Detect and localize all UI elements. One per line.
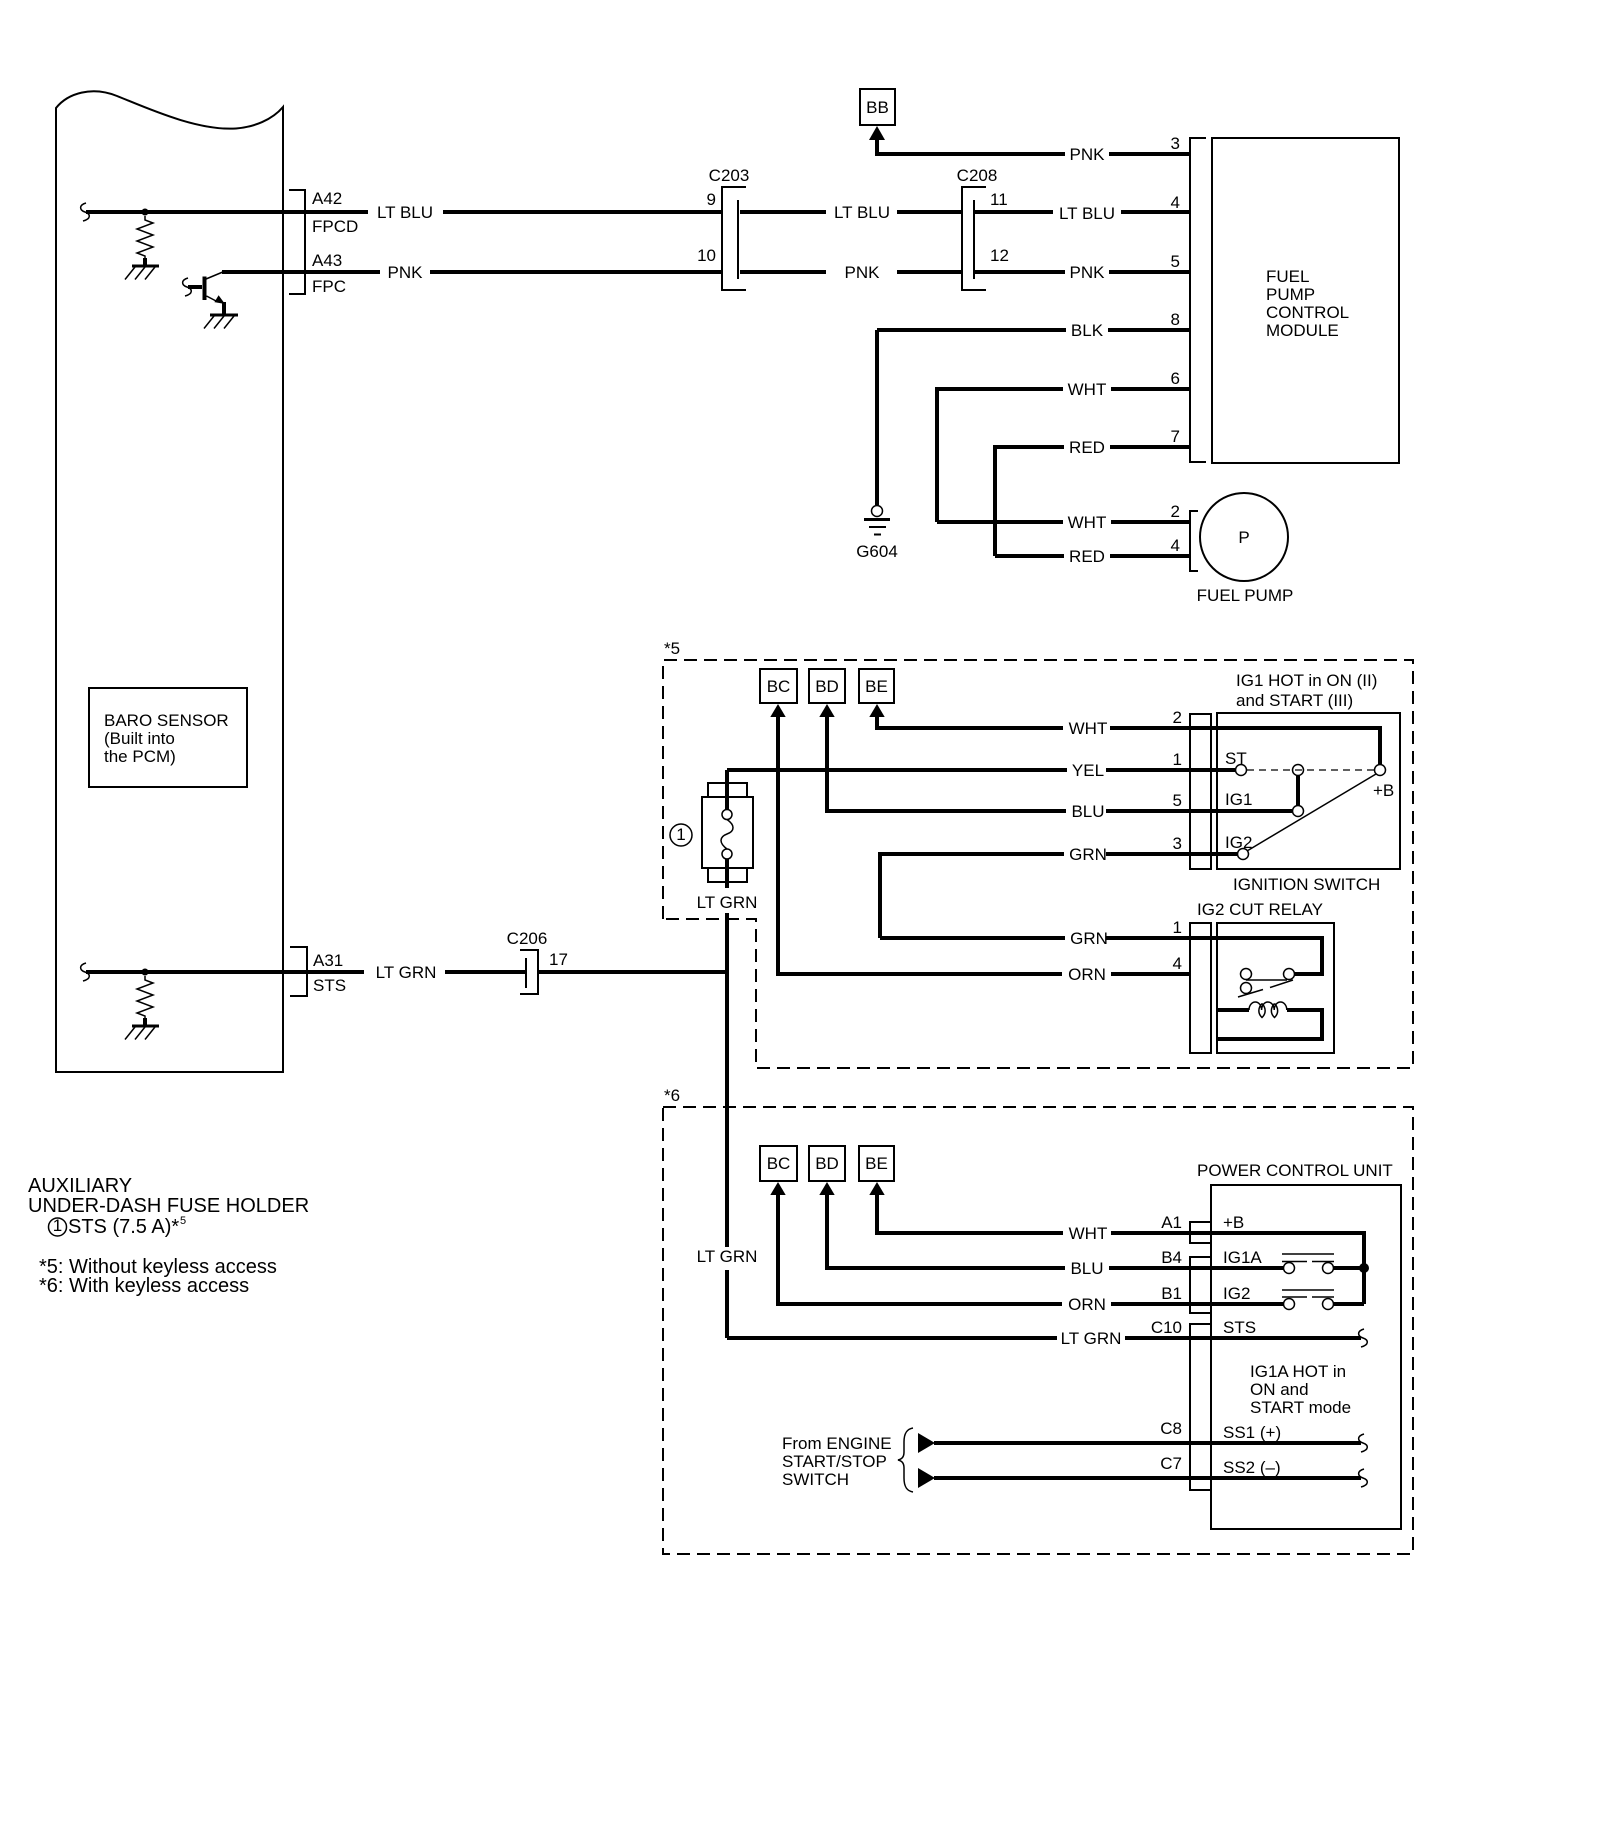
svg-text:6: 6 — [1171, 369, 1180, 388]
svg-text:STS: STS — [313, 976, 346, 995]
svg-text:12: 12 — [990, 246, 1009, 265]
svg-text:3: 3 — [1171, 134, 1180, 153]
svg-text:4: 4 — [1171, 536, 1180, 555]
svg-text:*6: *6 — [664, 1086, 680, 1105]
svg-text:10: 10 — [697, 246, 716, 265]
svg-text:RED: RED — [1069, 547, 1105, 566]
svg-text:1: 1 — [53, 1216, 62, 1235]
svg-text:WHT: WHT — [1068, 513, 1107, 532]
svg-text:4: 4 — [1171, 193, 1180, 212]
svg-text:FUEL: FUEL — [1266, 267, 1309, 286]
svg-text:BB: BB — [866, 98, 889, 117]
svg-text:WHT: WHT — [1069, 719, 1108, 738]
svg-text:9: 9 — [707, 190, 716, 209]
svg-text:BD: BD — [815, 677, 839, 696]
svg-text:LT GRN: LT GRN — [1061, 1329, 1122, 1348]
svg-text:LT GRN: LT GRN — [697, 1247, 758, 1266]
svg-text:A1: A1 — [1161, 1213, 1182, 1232]
svg-text:ON and: ON and — [1250, 1380, 1309, 1399]
svg-text:*5: *5 — [664, 639, 680, 658]
svg-text:2: 2 — [1171, 502, 1180, 521]
svg-text:START/STOP: START/STOP — [782, 1452, 887, 1471]
svg-text:B4: B4 — [1161, 1248, 1182, 1267]
svg-text:17: 17 — [549, 950, 568, 969]
svg-text:ORN: ORN — [1068, 1295, 1106, 1314]
svg-text:BD: BD — [815, 1154, 839, 1173]
svg-text:FUEL PUMP: FUEL PUMP — [1197, 586, 1294, 605]
svg-text:3: 3 — [1173, 834, 1182, 853]
svg-text:LT BLU: LT BLU — [834, 203, 890, 222]
svg-text:A43: A43 — [312, 251, 342, 270]
svg-text:BARO SENSOR: BARO SENSOR — [104, 711, 229, 730]
svg-text:LT BLU: LT BLU — [377, 203, 433, 222]
svg-text:LT BLU: LT BLU — [1059, 204, 1115, 223]
svg-text:C206: C206 — [507, 929, 548, 948]
svg-text:BLU: BLU — [1070, 1259, 1103, 1278]
svg-text:+B: +B — [1373, 781, 1394, 800]
svg-text:1: 1 — [1173, 918, 1182, 937]
svg-text:B1: B1 — [1161, 1284, 1182, 1303]
svg-text:+B: +B — [1223, 1213, 1244, 1232]
svg-text:SS2 (–): SS2 (–) — [1223, 1458, 1281, 1477]
svg-text:BLU: BLU — [1071, 802, 1104, 821]
svg-text:RED: RED — [1069, 438, 1105, 457]
svg-text:11: 11 — [990, 190, 1008, 209]
svg-text:the PCM): the PCM) — [104, 747, 176, 766]
svg-text:WHT: WHT — [1068, 380, 1107, 399]
svg-text:4: 4 — [1173, 954, 1182, 973]
svg-text:UNDER-DASH FUSE HOLDER: UNDER-DASH FUSE HOLDER — [28, 1195, 309, 1217]
svg-text:1: 1 — [1173, 750, 1182, 769]
svg-text:BLK: BLK — [1071, 321, 1104, 340]
svg-text:START mode: START mode — [1250, 1398, 1351, 1417]
svg-text:5: 5 — [1171, 252, 1180, 271]
svg-text:STS: STS — [1223, 1318, 1256, 1337]
svg-text:MODULE: MODULE — [1266, 321, 1339, 340]
svg-text:IG1: IG1 — [1225, 790, 1252, 809]
svg-text:PUMP: PUMP — [1266, 285, 1315, 304]
svg-text:A31: A31 — [313, 951, 343, 970]
svg-text:STS (7.5 A)*: STS (7.5 A)* — [68, 1216, 179, 1238]
svg-text:BE: BE — [865, 1154, 888, 1173]
svg-text:WHT: WHT — [1069, 1224, 1108, 1243]
svg-text:IG2: IG2 — [1223, 1284, 1250, 1303]
svg-text:CONTROL: CONTROL — [1266, 303, 1349, 322]
svg-text:LT GRN: LT GRN — [697, 893, 758, 912]
svg-text:1: 1 — [676, 825, 685, 844]
svg-text:IG2: IG2 — [1225, 833, 1252, 852]
svg-text:5: 5 — [1173, 791, 1182, 810]
svg-text:IG2 CUT RELAY: IG2 CUT RELAY — [1197, 900, 1323, 919]
svg-text:AUXILIARY: AUXILIARY — [28, 1175, 132, 1197]
svg-text:C7: C7 — [1160, 1454, 1182, 1473]
svg-text:C203: C203 — [709, 166, 750, 185]
svg-text:and START (III): and START (III) — [1236, 691, 1353, 710]
svg-text:PNK: PNK — [388, 263, 424, 282]
svg-text:YEL: YEL — [1072, 761, 1104, 780]
svg-text:SS1 (+): SS1 (+) — [1223, 1423, 1281, 1442]
svg-text:C8: C8 — [1160, 1419, 1182, 1438]
svg-text:C10: C10 — [1151, 1318, 1182, 1337]
svg-text:From ENGINE: From ENGINE — [782, 1434, 892, 1453]
svg-text:PNK: PNK — [845, 263, 881, 282]
svg-text:2: 2 — [1173, 708, 1182, 727]
svg-text:POWER CONTROL UNIT: POWER CONTROL UNIT — [1197, 1161, 1393, 1180]
svg-text:*6: With keyless access: *6: With keyless access — [39, 1275, 249, 1297]
svg-text:PNK: PNK — [1070, 145, 1106, 164]
svg-text:GRN: GRN — [1069, 845, 1107, 864]
svg-text:BE: BE — [865, 677, 888, 696]
svg-text:BC: BC — [767, 1154, 791, 1173]
svg-text:G604: G604 — [856, 542, 898, 561]
svg-text:PNK: PNK — [1070, 263, 1106, 282]
svg-text:5: 5 — [180, 1215, 186, 1227]
svg-text:IGNITION SWITCH: IGNITION SWITCH — [1233, 875, 1380, 894]
svg-text:SWITCH: SWITCH — [782, 1470, 849, 1489]
svg-text:P: P — [1238, 528, 1249, 547]
svg-text:GRN: GRN — [1070, 929, 1108, 948]
svg-text:A42: A42 — [312, 189, 342, 208]
svg-text:BC: BC — [767, 677, 791, 696]
svg-text:7: 7 — [1171, 427, 1180, 446]
svg-text:LT GRN: LT GRN — [376, 963, 437, 982]
svg-text:FPC: FPC — [312, 277, 346, 296]
svg-text:IG1A HOT in: IG1A HOT in — [1250, 1362, 1346, 1381]
svg-text:C208: C208 — [957, 166, 998, 185]
svg-text:FPCD: FPCD — [312, 217, 358, 236]
svg-text:(Built into: (Built into — [104, 729, 175, 748]
svg-text:IG1A: IG1A — [1223, 1248, 1262, 1267]
svg-text:IG1 HOT in ON (II): IG1 HOT in ON (II) — [1236, 671, 1377, 690]
svg-text:8: 8 — [1171, 310, 1180, 329]
svg-text:ORN: ORN — [1068, 965, 1106, 984]
